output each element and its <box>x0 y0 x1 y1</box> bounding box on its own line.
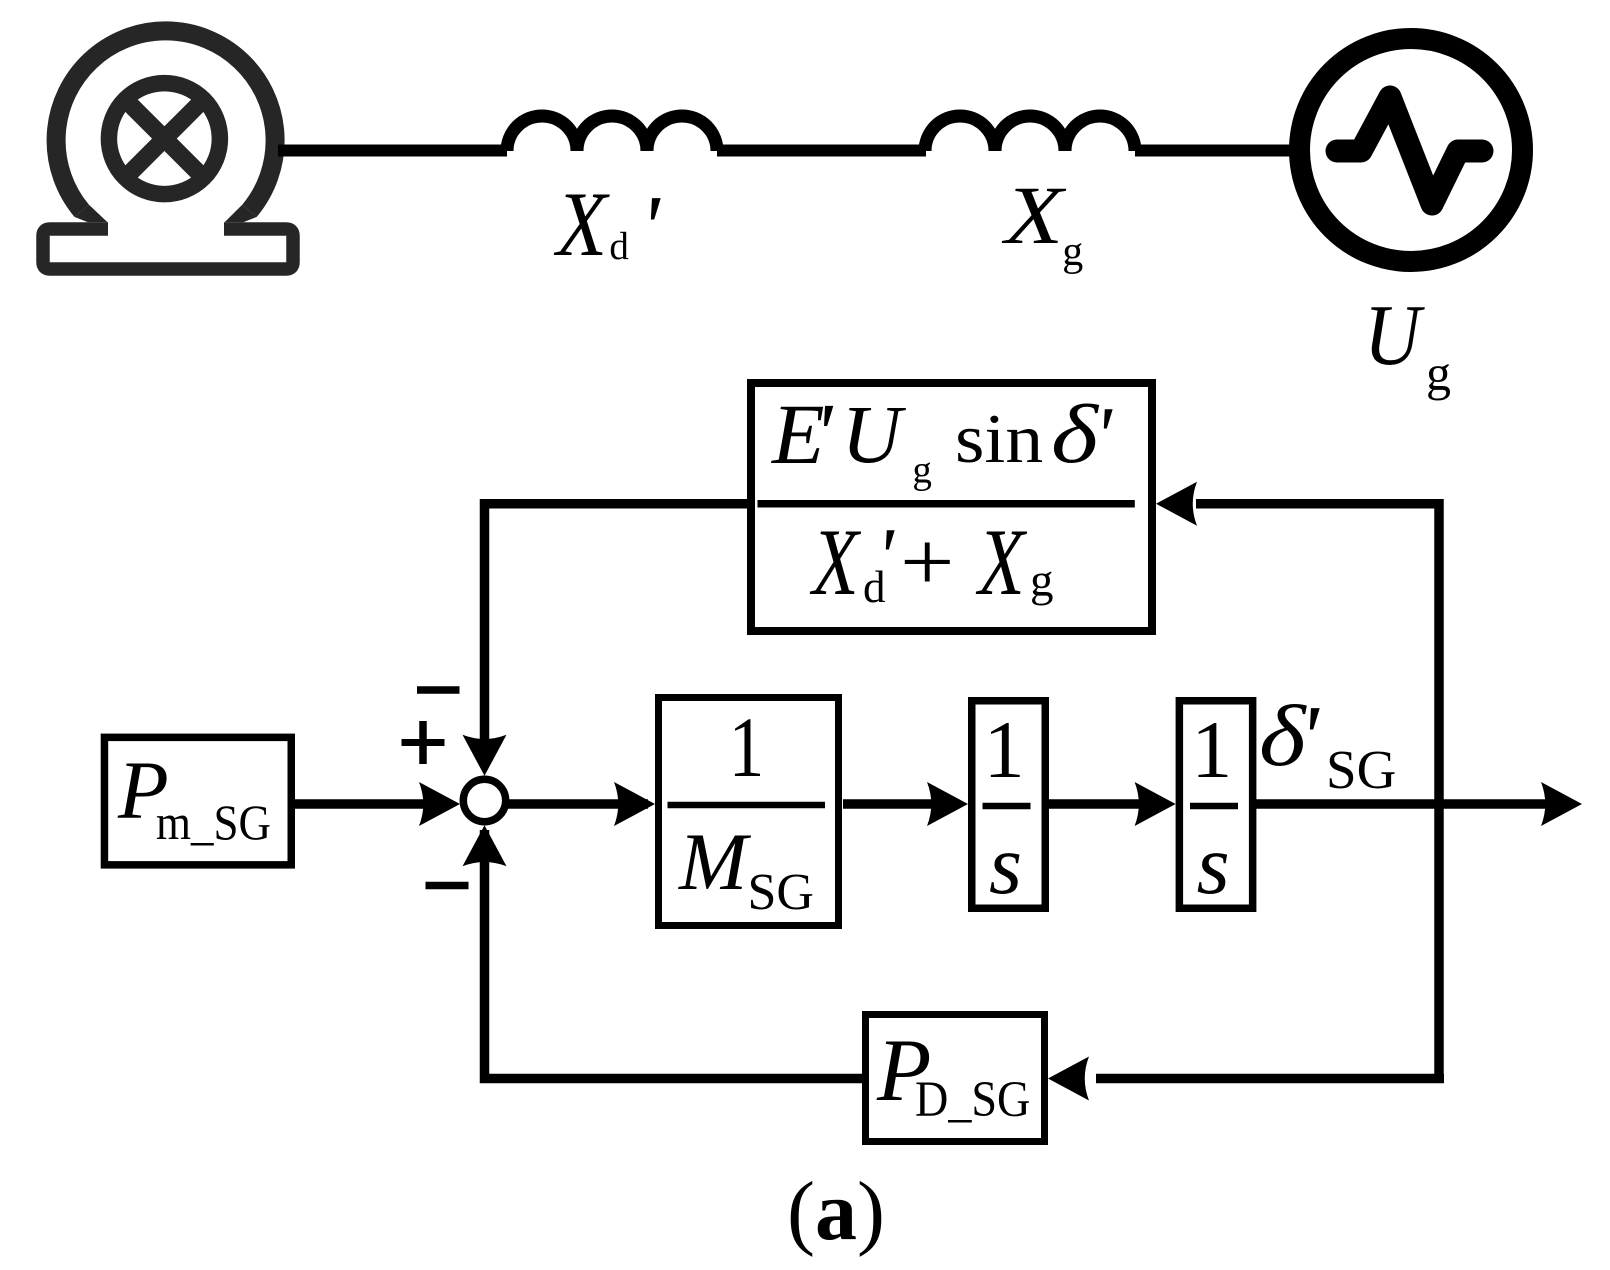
svg-text:M: M <box>678 816 752 907</box>
svg-text:g: g <box>1062 229 1083 275</box>
svg-text:X: X <box>810 509 862 615</box>
svg-text:1: 1 <box>1191 704 1232 795</box>
svg-text:': ' <box>876 511 895 602</box>
svg-text:s: s <box>1197 818 1230 912</box>
svg-text:s: s <box>989 818 1022 912</box>
svg-text:': ' <box>640 177 661 278</box>
svg-text:': ' <box>814 385 834 481</box>
svg-text:sin: sin <box>955 400 1043 478</box>
svg-text:d: d <box>609 225 629 268</box>
svg-text:1: 1 <box>984 704 1025 795</box>
svg-text:g: g <box>1426 345 1451 401</box>
svg-text:': ' <box>1094 390 1113 481</box>
svg-text:g: g <box>1030 554 1054 606</box>
svg-text:g: g <box>912 448 932 491</box>
svg-text:SG: SG <box>1326 739 1396 800</box>
svg-text:+: + <box>900 515 954 609</box>
svg-text:1: 1 <box>729 701 765 796</box>
svg-text:X: X <box>1002 170 1067 262</box>
svg-text:(a): (a) <box>787 1165 885 1258</box>
svg-text:X: X <box>976 509 1028 615</box>
svg-text:': ' <box>1299 687 1320 788</box>
svg-text:δ: δ <box>1051 388 1100 481</box>
svg-text:m_SG: m_SG <box>156 796 271 851</box>
svg-text:U: U <box>1364 286 1425 383</box>
svg-text:SG: SG <box>748 864 814 921</box>
svg-text:X: X <box>554 173 611 275</box>
svg-text:U: U <box>842 388 907 480</box>
svg-text:D_SG: D_SG <box>915 1071 1030 1128</box>
